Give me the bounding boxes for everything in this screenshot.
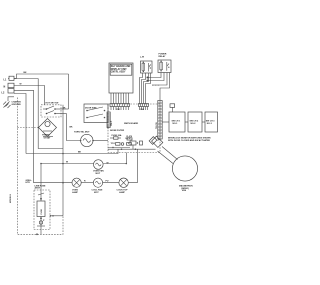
svg-text:BK: BK [70, 127, 74, 129]
magnetron plug [149, 136, 163, 147]
U channel around diamond [38, 79, 63, 216]
relay drive cluster [126, 138, 143, 149]
wire to rail3 [14, 90, 34, 182]
hood switch box [41, 102, 69, 117]
fuse cluster inside board [108, 126, 133, 148]
rail2 W [41, 153, 127, 165]
wire bar to plug [158, 139, 161, 141]
wire from fuse assy to right [50, 215, 63, 217]
board bottom line to plug [108, 148, 156, 150]
grill heater label [26, 180, 33, 184]
connector CN-B [139, 104, 149, 112]
fuse F1 [8, 76, 38, 80]
svg-text:MOT: MOT [94, 192, 99, 194]
magnetron [172, 156, 197, 192]
control panel box [109, 63, 133, 93]
svg-text:KEY BOARD AND: KEY BOARD AND [111, 65, 131, 68]
fuse assembly box [34, 190, 50, 230]
interlock switch box 2 [185, 112, 202, 132]
svg-text:MODELS: MODELS [10, 193, 12, 203]
board right connector bar [156, 101, 162, 140]
svg-text:BK: BK [78, 151, 82, 153]
wire box bottom to border [40, 230, 42, 235]
terminal block N [8, 83, 14, 88]
wire label GY above box1 [170, 104, 175, 112]
svg-text:CN-C: CN-C [111, 120, 113, 126]
svg-text:L-W: L-W [140, 57, 144, 59]
board left connector bar [107, 112, 113, 128]
relay 2 [158, 54, 171, 73]
connector CN-A [110, 104, 130, 112]
relay 1 [140, 57, 152, 74]
svg-text:NO-1: NO-1 [173, 123, 179, 125]
control panel pins [111, 93, 129, 104]
wire bar to interlock [162, 121, 169, 123]
wire to rail1 [14, 94, 26, 154]
svg-text:GROUND: GROUND [12, 104, 22, 106]
interlock caption [168, 138, 211, 143]
svg-text:LAMP: LAMP [119, 191, 126, 194]
svg-text:NO-3: NO-3 [207, 123, 213, 125]
dashed branch to diamond [17, 127, 38, 129]
fuse assembly label [35, 185, 46, 189]
wire x41 down to grill box [40, 164, 42, 191]
chassis boundary dashed [17, 98, 63, 236]
turntable motor [74, 132, 108, 147]
interlock switch box 3 [202, 112, 218, 132]
svg-text:W: W [66, 161, 68, 163]
wire BK top [14, 72, 69, 78]
svg-text:RELAY: RELAY [159, 55, 166, 58]
inverter board [108, 104, 160, 153]
wire hood to turntable motor [67, 114, 81, 141]
svg-text:OSTAT: OSTAT [44, 137, 51, 140]
svg-text:TB-CN: TB-CN [156, 122, 158, 129]
svg-text:HOT SKT KIT: HOT SKT KIT [46, 102, 60, 104]
terminal block L2 [8, 89, 14, 94]
rail3 [34, 149, 138, 183]
svg-text:DISPLAY UNIT: DISPLAY UNIT [111, 68, 127, 71]
node L1 [4, 79, 7, 82]
svg-text:ASSY: ASSY [35, 187, 41, 190]
svg-text:FUSE: FUSE [41, 208, 43, 214]
svg-text:LAMP: LAMP [72, 191, 79, 194]
magnetron leads [158, 147, 178, 164]
door switch box [84, 104, 108, 123]
svg-text:HTR: HTR [26, 182, 31, 184]
relay wiring [140, 73, 170, 104]
svg-text:WITH DOOR CLOSED AND SW ACTUAT: WITH DOOR CLOSED AND SW ACTUATED [168, 139, 211, 142]
svg-text:PU: PU [106, 180, 109, 182]
svg-text:W: W [107, 162, 109, 164]
wire vertical from BK to hood switch [68, 74, 70, 109]
oven lamp [72, 178, 81, 194]
svg-text:TCO: TCO [111, 143, 116, 145]
svg-text:RY-D: RY-D [126, 138, 131, 140]
svg-text:BK: BK [24, 72, 28, 74]
svg-text:NO-2: NO-2 [191, 123, 197, 125]
interlock switch box 1 [169, 112, 185, 132]
svg-text:SMPS BOARD: SMPS BOARD [124, 122, 139, 125]
cook lamp [106, 178, 129, 194]
svg-text:CNTRL ASSY: CNTRL ASSY [111, 71, 126, 74]
rail1 BK [26, 149, 118, 183]
wire W middle [14, 84, 45, 105]
cooling fan motor [84, 178, 103, 194]
thermostat diamond [39, 119, 57, 140]
oven fan motor [93, 160, 109, 175]
svg-text:MOT: MOT [96, 173, 101, 175]
ground chassis [3, 97, 21, 108]
svg-text:NOISE FILTER: NOISE FILTER [110, 130, 125, 132]
svg-text:TURN TBL MOT: TURN TBL MOT [74, 132, 90, 134]
svg-text:W: W [20, 84, 22, 86]
svg-text:N: N [4, 86, 6, 89]
relay dashed stub [152, 84, 160, 86]
